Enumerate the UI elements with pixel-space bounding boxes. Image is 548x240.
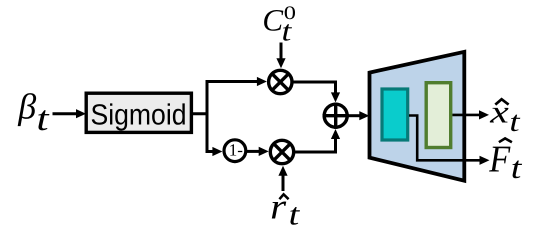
wire teal block to F output xyxy=(409,116,490,165)
latent block teal xyxy=(382,89,408,140)
svg-text:1-: 1- xyxy=(229,141,244,160)
svg-text:t: t xyxy=(36,99,50,138)
svg-text:F: F xyxy=(488,138,511,180)
wire top branch to multiplier xyxy=(206,77,267,86)
wire bottom branch to one-minus node xyxy=(206,147,223,156)
wire C input arrow xyxy=(276,43,285,69)
svg-text:x: x xyxy=(489,93,509,129)
wire one-minus to multiplier xyxy=(247,147,269,156)
wire r input arrow xyxy=(278,166,287,191)
svg-text:r: r xyxy=(270,186,287,226)
wire branch vertical xyxy=(206,80,209,153)
wire beta to Sigmoid xyxy=(53,109,87,118)
label x_t hat xyxy=(489,93,521,138)
adder node xyxy=(323,103,350,129)
label F_t hat xyxy=(488,138,523,185)
output block green xyxy=(426,83,451,148)
wire top multiplier to adder xyxy=(292,82,340,102)
wire adder to decoder xyxy=(349,111,369,120)
multiplier node bottom xyxy=(270,140,293,163)
label r_t hat xyxy=(270,186,301,231)
svg-text:t: t xyxy=(511,150,523,185)
svg-text:C: C xyxy=(262,2,283,37)
svg-text:β: β xyxy=(17,86,36,126)
svg-text:t: t xyxy=(282,15,293,47)
svg-text:t: t xyxy=(289,196,301,231)
wire bottom multiplier to adder xyxy=(294,129,341,152)
svg-text:Sigmoid: Sigmoid xyxy=(90,100,186,132)
decoder trapezoid xyxy=(370,52,465,181)
input label beta_t xyxy=(17,86,50,138)
wire green block to x output xyxy=(452,110,489,119)
svg-text:t: t xyxy=(509,106,520,138)
multiplier node top xyxy=(269,70,292,93)
sigmoid block xyxy=(86,93,191,132)
one-minus node xyxy=(224,140,246,162)
wire Sigmoid output to branch point xyxy=(191,112,209,115)
label C_t^0 xyxy=(262,2,296,47)
